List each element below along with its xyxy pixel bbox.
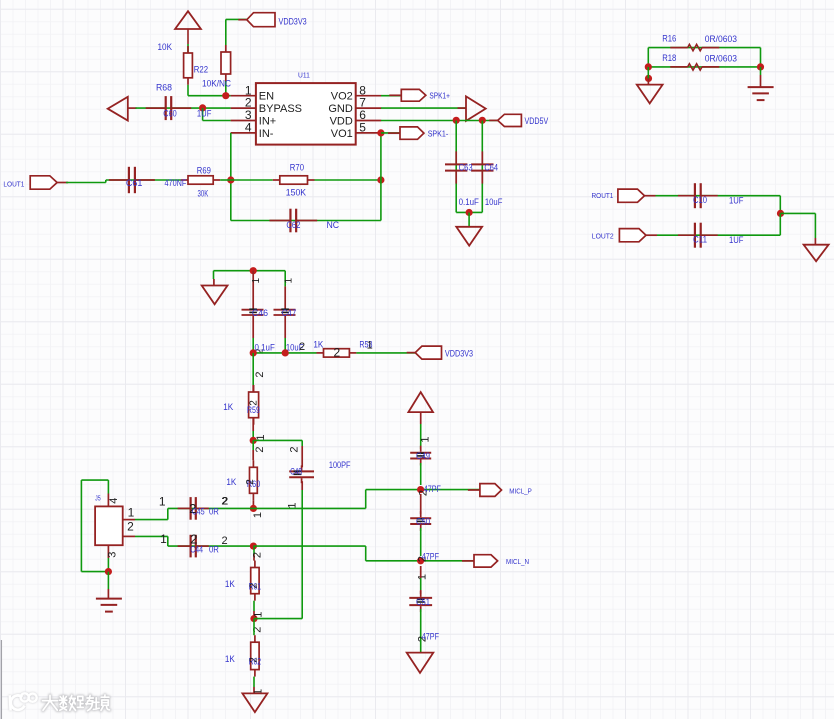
svg-text:2: 2 [251,552,263,558]
svg-text:10K/NC: 10K/NC [202,79,231,89]
svg-text:C50: C50 [416,516,430,526]
svg-text:47PF: 47PF [424,484,442,494]
svg-text:3: 3 [107,552,119,558]
svg-text:1: 1 [252,512,264,518]
svg-text:150K: 150K [286,187,306,197]
svg-text:C49: C49 [416,451,430,461]
svg-text:100PF: 100PF [329,460,351,470]
svg-text:VDD3V3: VDD3V3 [279,16,307,26]
svg-text:VDD: VDD [330,116,353,128]
svg-text:SPK1+: SPK1+ [429,91,450,100]
svg-text:5: 5 [359,121,366,135]
svg-text:MICL_P: MICL_P [509,486,532,495]
svg-text:0R/0603: 0R/0603 [705,53,737,63]
svg-text:C60: C60 [163,108,176,118]
svg-text:GND: GND [328,103,353,115]
svg-text:1K: 1K [225,654,235,664]
svg-text:BYPASS: BYPASS [259,103,302,115]
svg-text:2: 2 [254,446,266,452]
svg-text:10K: 10K [158,42,173,52]
svg-text:SPK1-: SPK1- [428,130,449,139]
svg-text:1: 1 [160,532,167,546]
svg-text:1K: 1K [313,339,323,349]
svg-text:VO1: VO1 [331,128,353,140]
svg-text:1: 1 [416,574,428,580]
svg-text:R70: R70 [290,162,304,172]
svg-text:0R/0603: 0R/0603 [705,34,737,44]
svg-text:NC: NC [327,220,340,230]
svg-text:47PF: 47PF [422,551,440,561]
svg-text:IN-: IN- [259,128,274,140]
svg-text:1: 1 [284,277,295,283]
svg-text:C51: C51 [416,597,430,607]
svg-text:2: 2 [249,657,260,663]
svg-text:0.1uF: 0.1uF [255,343,276,353]
svg-text:IN+: IN+ [259,116,276,128]
svg-text:1: 1 [367,340,373,352]
svg-text:1: 1 [128,505,135,519]
svg-text:2: 2 [299,341,305,353]
svg-text:1UF: 1UF [729,235,744,245]
svg-text:U11: U11 [298,73,310,80]
svg-text:C64: C64 [484,163,498,173]
svg-text:VDD3V3: VDD3V3 [445,348,473,358]
svg-text:R18: R18 [662,53,676,63]
svg-text:VO2: VO2 [331,91,353,103]
svg-text:0.1uF: 0.1uF [459,197,480,207]
svg-text:LOUT2: LOUT2 [592,231,614,240]
svg-text:C10: C10 [693,195,707,205]
svg-text:4: 4 [245,121,252,135]
svg-text:R16: R16 [662,34,676,44]
svg-text:1K: 1K [226,477,236,487]
svg-text:0R: 0R [209,506,219,516]
svg-text:VDD5V: VDD5V [525,116,549,126]
svg-text:C48: C48 [290,466,302,476]
svg-text:2: 2 [127,520,134,534]
svg-text:C45: C45 [192,506,205,516]
svg-text:C63: C63 [459,163,473,173]
svg-text:0R: 0R [209,545,219,555]
svg-text:J5: J5 [95,495,101,502]
svg-text:C47: C47 [282,308,297,318]
svg-text:1UF: 1UF [729,195,744,205]
svg-text:1: 1 [420,436,432,442]
svg-text:1K: 1K [225,579,235,589]
svg-text:C44: C44 [190,545,203,555]
svg-text:EN: EN [259,91,274,103]
svg-text:LOUT1: LOUT1 [3,179,24,188]
svg-text:10uF: 10uF [485,197,503,207]
svg-text:2: 2 [222,535,228,547]
svg-text:2: 2 [254,372,266,378]
svg-text:C62: C62 [286,220,300,230]
svg-text:2: 2 [334,346,341,360]
svg-text:2: 2 [222,496,228,508]
svg-text:47PF: 47PF [422,632,440,642]
svg-text:C11: C11 [693,234,707,244]
svg-text:1UF: 1UF [197,108,212,118]
svg-text:470NF: 470NF [165,178,187,188]
svg-text:1: 1 [159,495,166,509]
svg-text:C61: C61 [126,178,143,188]
svg-text:MICL_N: MICL_N [506,557,529,566]
svg-text:1: 1 [253,612,265,618]
svg-text:2: 2 [289,446,301,452]
svg-text:2: 2 [245,479,256,485]
svg-text:R22: R22 [194,65,208,75]
svg-text:1K: 1K [223,402,233,412]
svg-text:R68: R68 [156,82,172,92]
svg-text:ROUT1: ROUT1 [592,191,614,200]
svg-text:1: 1 [251,277,262,283]
svg-text:2: 2 [249,582,260,588]
svg-text:2: 2 [249,400,260,406]
svg-text:30K: 30K [198,188,209,198]
svg-text:4: 4 [108,498,120,504]
svg-text:C46: C46 [252,308,268,318]
svg-text:R69: R69 [197,166,211,176]
